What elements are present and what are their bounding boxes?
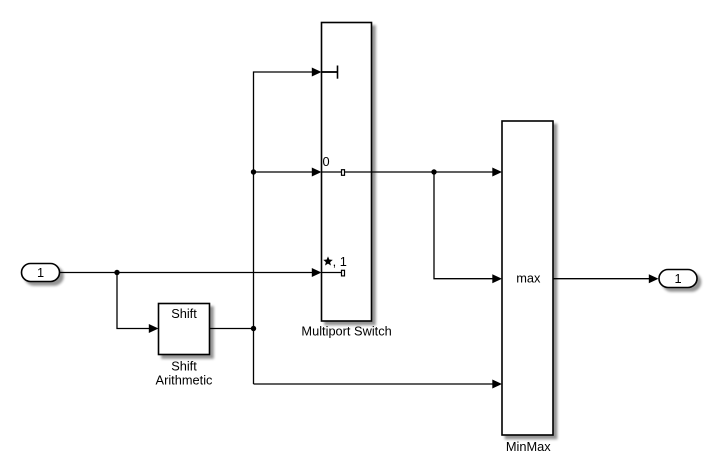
svg-text:Arithmetic: Arithmetic: [156, 373, 213, 388]
svg-text:Shift: Shift: [171, 306, 197, 321]
svg-text:, 1: , 1: [333, 254, 347, 269]
svg-text:MinMax: MinMax: [506, 439, 551, 454]
svg-text:1: 1: [674, 271, 681, 286]
svg-text:max: max: [516, 270, 541, 285]
svg-text:0: 0: [323, 154, 330, 169]
svg-text:1: 1: [37, 265, 44, 280]
svg-text:Shift: Shift: [171, 358, 197, 373]
svg-text:Multiport Switch: Multiport Switch: [301, 324, 391, 339]
